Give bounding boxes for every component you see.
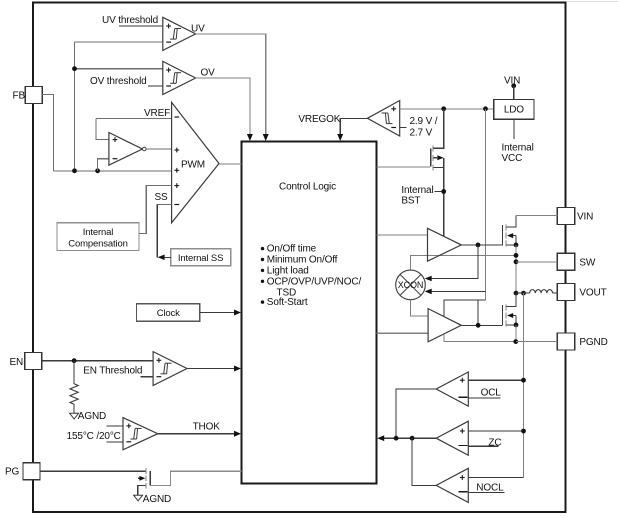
node dot NOCL output junction bbox=[410, 436, 415, 441]
pin FB bbox=[13, 87, 43, 104]
svg-text:Minimum On/Off: Minimum On/Off bbox=[267, 255, 338, 266]
pin SW bbox=[557, 253, 596, 270]
wire OCL plus input bbox=[468, 379, 523, 381]
wire error amp output to PWM bbox=[146, 148, 172, 150]
wire OCL minus stub bbox=[468, 397, 500, 399]
wire BST gate from control logic bbox=[377, 166, 431, 168]
wire NOCL plus input bbox=[468, 477, 523, 479]
node dot LS driver output bbox=[476, 323, 481, 328]
comparator PWM bbox=[172, 102, 219, 222]
pin VOUT bbox=[557, 284, 606, 301]
wire VCC rail to LDO bbox=[400, 108, 494, 110]
wire current sense vertical bbox=[523, 293, 525, 477]
wire LS source to PGND rail bbox=[515, 325, 517, 342]
svg-text:EN Threshold: EN Threshold bbox=[83, 366, 142, 377]
wire LDO to internal VCC bbox=[513, 119, 515, 139]
svg-text:VREGOK: VREGOK bbox=[298, 114, 340, 125]
svg-text:PWM: PWM bbox=[181, 160, 205, 171]
wire UV output to control logic bbox=[196, 34, 266, 137]
block Clock bbox=[137, 304, 200, 322]
wire HS gate feedback to XCON bbox=[431, 245, 479, 279]
node dot Internal BST bbox=[441, 189, 446, 194]
svg-text:XCON: XCON bbox=[398, 280, 423, 290]
svg-text:Clock: Clock bbox=[157, 308, 180, 319]
svg-text:Light load: Light load bbox=[267, 266, 309, 277]
circle XCON block bbox=[396, 270, 426, 300]
wire PG pin to open-drain FET bbox=[40, 470, 145, 472]
svg-text:Control Logic: Control Logic bbox=[279, 182, 336, 193]
svg-text:Internal: Internal bbox=[502, 142, 534, 153]
block Internal Compensation bbox=[57, 223, 139, 251]
pin VIN bbox=[557, 208, 593, 225]
node dot OCL plus tap bbox=[521, 378, 526, 383]
wire EN threshold stub bbox=[141, 376, 154, 378]
node dot VCC rail / XCON supply bbox=[483, 106, 488, 111]
comparator OCL bbox=[436, 372, 468, 406]
arrow BST FET body bbox=[437, 155, 443, 160]
inductor L bbox=[530, 290, 553, 293]
node dot VCC rail / BST drain bbox=[441, 106, 446, 111]
wire EN pin to comparator bbox=[42, 360, 153, 362]
arrow PG FET body bbox=[139, 476, 145, 481]
driver LS gate buffer bbox=[428, 309, 461, 342]
wire SW to inductor bbox=[516, 292, 530, 294]
wire HS driver output to gate bbox=[461, 244, 502, 246]
wire XCON lower arrow line bbox=[431, 290, 486, 292]
wire THOK output bbox=[158, 433, 236, 435]
svg-text:UV: UV bbox=[191, 24, 205, 35]
arrow into XCON lower bbox=[425, 289, 432, 295]
node dot ZC plus tap bbox=[521, 429, 526, 434]
wire VIN to LDO bbox=[513, 86, 515, 100]
pin EN bbox=[10, 353, 42, 370]
svg-text:VREF: VREF bbox=[144, 108, 170, 119]
node dot PGND rail bbox=[513, 339, 518, 344]
wire UV threshold stub bbox=[119, 25, 163, 27]
control logic block bbox=[242, 142, 377, 484]
op-amp error amplifier bbox=[109, 133, 146, 166]
svg-text:BST: BST bbox=[401, 196, 420, 207]
svg-text:PGND: PGND bbox=[579, 337, 607, 348]
wire SW node to SW pin bbox=[516, 261, 557, 263]
svg-text:UV threshold: UV threshold bbox=[102, 15, 158, 26]
wire Internal BST dash bbox=[435, 191, 442, 193]
svg-text:Compensation: Compensation bbox=[68, 239, 127, 250]
wire OCL output bbox=[396, 389, 436, 438]
node dot SW sense tap bbox=[514, 253, 519, 258]
wire clock to control logic bbox=[200, 312, 236, 314]
wire thermal plus stub bbox=[106, 425, 123, 427]
wire SS to PWM input bbox=[156, 204, 171, 206]
wire VREF rail bbox=[96, 118, 172, 120]
arrow OV into control logic bbox=[247, 134, 253, 141]
transistor BST switch bbox=[431, 109, 444, 171]
node dot FB rail / error amp tap bbox=[95, 168, 100, 173]
svg-text:On/Off time: On/Off time bbox=[267, 244, 317, 255]
wire FB to error amp minus bbox=[98, 159, 109, 171]
arrow LS FET body bbox=[507, 313, 513, 318]
arrow into XCON upper bbox=[425, 276, 432, 282]
arrow EN into control logic bbox=[234, 366, 241, 372]
svg-text:SS: SS bbox=[155, 192, 169, 203]
node dot inductor tap bbox=[514, 291, 519, 296]
transistor PG open-drain FET bbox=[138, 468, 151, 495]
node dot VIN label bbox=[511, 83, 516, 88]
wire OV output to control logic bbox=[196, 78, 250, 137]
wire VREGOK output to control logic bbox=[340, 118, 367, 137]
arrow VREGOK into control logic bbox=[337, 134, 343, 141]
wire FB rail to PWM bbox=[53, 170, 171, 172]
wire FB sense vertical to UV/OV bbox=[74, 42, 76, 171]
transistor HS power FET bbox=[503, 216, 516, 247]
wire PWM output to control logic bbox=[219, 163, 242, 165]
node dot EN / pulldown bbox=[72, 358, 77, 363]
wire thermal minus stub bbox=[106, 441, 123, 443]
block Internal SS bbox=[171, 249, 231, 266]
pin PGND bbox=[557, 333, 607, 350]
comparator EN bbox=[153, 352, 187, 386]
transistor LS power FET bbox=[503, 293, 516, 327]
svg-text:OCP/OVP/UVP/NOC/: OCP/OVP/UVP/NOC/ bbox=[267, 276, 362, 287]
svg-text:SW: SW bbox=[579, 257, 596, 268]
node dot OCL output junction bbox=[394, 436, 399, 441]
svg-text:AGND: AGND bbox=[78, 411, 106, 422]
wire XCON bottom to LS driver input bbox=[411, 300, 429, 316]
node dot LS source bbox=[514, 323, 519, 328]
comparator UV bbox=[163, 17, 196, 50]
wire inductor to VOUT pin bbox=[553, 292, 558, 294]
svg-text:Soft-Start: Soft-Start bbox=[267, 297, 308, 308]
svg-text:Internal SS: Internal SS bbox=[178, 253, 223, 264]
wire XCON net to LS driver bbox=[444, 300, 485, 317]
svg-text:FB: FB bbox=[13, 91, 26, 102]
svg-text:Internal: Internal bbox=[83, 227, 114, 238]
svg-text:EN: EN bbox=[10, 357, 24, 368]
arrow HS FET body bbox=[507, 233, 513, 238]
comparator NOCL bbox=[436, 468, 468, 502]
wire NOCL output bbox=[412, 438, 436, 485]
ground AGND (PG FET) bbox=[134, 494, 171, 505]
wire NOCL minus stub bbox=[468, 491, 504, 493]
svg-text:OCL: OCL bbox=[481, 388, 502, 399]
resistor EN pulldown bbox=[70, 361, 78, 414]
node dot sense line tap bbox=[521, 291, 526, 296]
wire LS driver input from control logic bbox=[377, 332, 429, 334]
svg-text:Internal: Internal bbox=[401, 185, 433, 196]
wire VIN pin to HS drain bbox=[516, 215, 557, 217]
wire SS vertical bbox=[156, 205, 158, 258]
wire comparator outputs to control logic bbox=[383, 437, 437, 439]
wire VCC supply vertical to XCON net bbox=[485, 109, 487, 300]
svg-text:VOUT: VOUT bbox=[579, 288, 606, 299]
comparator thermal TSD bbox=[123, 418, 158, 450]
wire compensation to PWM input bbox=[139, 186, 172, 234]
arrow clock into control logic bbox=[234, 310, 241, 316]
comparator VREGOK bbox=[367, 101, 399, 137]
wire PGND to LS driver ground ref bbox=[444, 334, 516, 342]
wire LS driver output to gate bbox=[461, 324, 502, 326]
wire SW node vertical bbox=[515, 245, 517, 307]
node dot HS source bbox=[514, 243, 519, 248]
block LDO bbox=[494, 99, 534, 119]
wire EN comparator output bbox=[187, 368, 236, 370]
wire VREF to error amp plus bbox=[96, 119, 109, 140]
driver HS gate buffer bbox=[428, 228, 462, 261]
comparator OV bbox=[163, 61, 196, 94]
svg-text:VIN: VIN bbox=[577, 212, 593, 223]
wire ZC minus stub bbox=[468, 445, 498, 447]
node dot HS driver output bbox=[476, 243, 481, 248]
svg-text:LDO: LDO bbox=[504, 105, 524, 116]
wire LS driver output feedback vertical bbox=[477, 300, 479, 325]
wire OV plus input bbox=[75, 68, 163, 70]
wire ZC plus input bbox=[468, 430, 523, 432]
pin PG bbox=[5, 463, 40, 480]
wire UV minus input bbox=[75, 41, 163, 43]
svg-text:2.7 V: 2.7 V bbox=[410, 127, 433, 138]
wire BST source to HS driver bbox=[443, 167, 445, 236]
arrow THOK into control logic bbox=[234, 431, 241, 437]
wire VREGOK minus stub bbox=[400, 127, 407, 129]
faint page border top-right bbox=[566, 1, 618, 3]
control logic bullet list bbox=[261, 244, 362, 309]
arrow UV into control logic bbox=[263, 134, 269, 141]
wire PG FET gate from control logic bbox=[150, 471, 241, 485]
node dot FB rail / sense vertical bbox=[72, 168, 77, 173]
comparator ZC bbox=[436, 421, 468, 455]
node dot FB/OV tap bbox=[72, 66, 77, 71]
svg-text:AGND: AGND bbox=[143, 494, 171, 505]
svg-text:PG: PG bbox=[5, 467, 20, 478]
svg-text:OV threshold: OV threshold bbox=[90, 76, 147, 87]
wire Internal SS output bbox=[164, 256, 171, 258]
wire FB pin to FB rail bbox=[42, 95, 53, 171]
node dot SW pin tap bbox=[514, 259, 519, 264]
svg-text:OV: OV bbox=[201, 68, 216, 79]
wire PGND rail to PGND pin bbox=[516, 341, 558, 343]
wire HS driver input from control logic bbox=[377, 234, 428, 236]
arrow comparators into control logic bbox=[377, 435, 384, 441]
wire SW sense to XCON top and HS driver bbox=[411, 255, 517, 270]
svg-text:VCC: VCC bbox=[502, 153, 523, 164]
svg-text:THOK: THOK bbox=[193, 421, 221, 432]
svg-text:155°C /20°C: 155°C /20°C bbox=[67, 431, 121, 442]
arrow Internal SS to SS node bbox=[158, 254, 165, 260]
ground AGND (EN pulldown) bbox=[70, 411, 106, 422]
wire OV threshold stub bbox=[148, 85, 163, 87]
svg-text:2.9 V /: 2.9 V / bbox=[410, 116, 438, 127]
